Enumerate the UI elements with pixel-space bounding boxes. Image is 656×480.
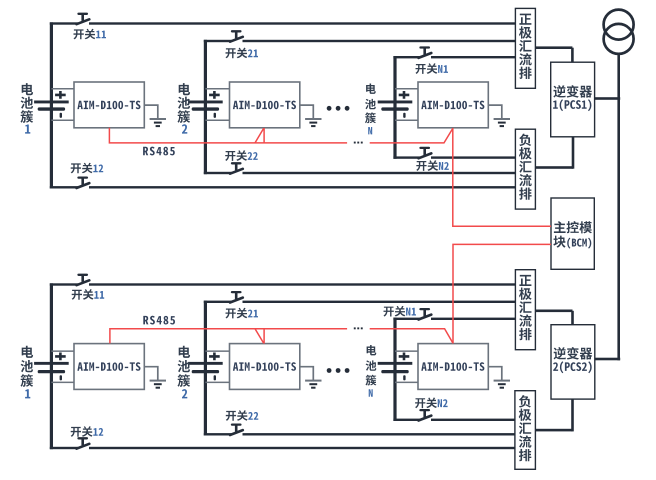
battery clusterN top 电池簇N [378,91,413,118]
wire battery1 to module bottom [51,350,74,383]
bus bar 负极汇流排 bottom [515,391,536,470]
battery cluster2 top 电池簇2 [188,91,223,118]
switch 开关22 bottom [230,424,243,435]
wire battery1 to module top [51,88,74,121]
switch 开关22 top [230,163,243,174]
label 电池簇1 top [21,83,34,134]
module UN top AIM-D100-TS [418,82,488,128]
label 开关N1 top [416,63,449,74]
label RS485 bottom [143,316,175,325]
wire clusterN top battery rail [393,56,396,159]
label 电池簇N bottom [366,345,377,397]
wire cluster1 top negative line segments [50,186,516,188]
wire RS485 bottom to UN [370,329,453,344]
inverter 逆变器1 PCS1 [551,62,595,137]
module U2 bottom AIM-D100-TS [230,344,300,390]
wire RS485 BCM to UN-bottom [453,244,551,343]
module UN bottom AIM-D100-TS [418,344,488,390]
node ellipsis battery row bottom [327,368,350,373]
ground clusterN bottom [488,367,510,389]
wire cluster2 top negative line segments [204,172,516,174]
wire 负极A to PCS1 [535,137,574,169]
wire clusterN bottom negative line segments [393,419,516,421]
wire batteryN to module bottom [395,350,418,383]
wire cluster2 bottom battery rail [204,301,207,436]
module U2 top AIM-D100-TS [230,82,300,128]
label 开关11 bottom [72,289,105,300]
wire RS485 UN-top to BCM [453,128,551,226]
label 电池簇1 bottom [21,346,34,399]
label 电池簇2 top [178,83,191,134]
transformer grid connection [604,10,634,54]
battery cluster1 bottom 电池簇1 [34,353,69,381]
wire cluster1 bottom battery rail [50,283,53,449]
inverter 逆变器2 PCS2 [551,325,595,399]
label 开关N1 bottom [384,306,417,317]
label RS485 top [143,147,175,156]
switch 开关12 bottom [77,438,90,449]
switch 开关12 top [77,177,90,188]
module U1 top AIM-D100-TS [74,82,144,128]
node ellipsis battery row top [327,106,350,111]
ground clusterN top [488,105,510,127]
switch 开关N1 top [419,47,432,58]
ground cluster2 top [300,105,322,127]
wire clusterN bottom battery rail [393,318,396,421]
wire cluster1 bottom negative line segments [50,447,516,449]
label 开关12 bottom [71,426,104,437]
wire cluster2 top battery rail [204,40,207,174]
label 开关21 top [226,48,259,59]
wire 负极B to PCS2 [535,399,574,431]
controller 主控模块 BCM [551,198,594,269]
wire battery2 to module top [205,88,229,121]
wire cluster1 bottom positive line segments [50,283,516,285]
wire RS485 top to UN [370,128,453,143]
ground cluster2 bottom [300,367,322,389]
switch 开关N2 bottom [419,410,432,421]
label 电池簇N top [365,84,376,135]
wire RS485 U1-top drop [109,128,347,143]
bus bar 正极汇流排 bottom [515,270,535,350]
wire cluster2 bottom positive line segments [204,301,516,303]
battery clusterN bottom 电池簇N [378,353,413,381]
switch 开关11 top [77,14,90,25]
switch 开关N1 bottom [419,309,432,320]
wire RS485 U2-top branch [255,128,264,143]
wire RS485 U2-bottom branch [255,329,264,344]
switch 开关21 top [230,31,243,42]
switch 开关N2 top [419,148,432,159]
wire cluster1 top positive line segments [50,22,516,24]
wire cluster2 top positive line segments [204,40,516,42]
wire 正极A to PCS1 [535,46,573,62]
wire 正极B to PCS2 [535,310,574,325]
wire PCS2 output to transformer [595,358,620,361]
bus bar 正极汇流排 top [515,8,535,88]
label 开关N2 bottom [415,398,448,409]
wire cluster1 top battery rail [50,22,53,188]
label 开关22 top [225,150,258,161]
ground cluster1 bottom [144,367,166,389]
label 开关11 top [74,29,107,40]
wire battery2 to module bottom [205,350,229,383]
wire PCS1 output to transformer [595,97,621,100]
bus bar 负极汇流排 top [515,129,535,209]
label 开关N2 top [416,160,449,171]
wire clusterN top positive line segments [393,56,516,58]
label 电池簇2 bottom [178,346,191,399]
switch 开关21 bottom [230,292,243,303]
battery cluster2 bottom 电池簇2 [188,353,223,381]
node RS485 ellipsis top [354,142,363,144]
wire transformer vertical feeder [617,53,620,360]
wire clusterN top negative line segments [393,156,516,158]
switch 开关11 bottom [77,275,90,286]
wire cluster2 bottom negative line segments [204,433,516,435]
label 开关22 bottom [226,410,258,421]
label 开关21 bottom [226,308,259,319]
wire RS485 U1-bottom drop [110,329,347,344]
ground cluster1 top [144,105,166,127]
battery cluster1 top 电池簇1 [34,91,69,118]
wire batteryN to module top [395,88,418,121]
label 开关12 top [71,163,104,174]
module U1 bottom AIM-D100-TS [74,344,144,390]
wire clusterN bottom positive line segments [393,318,516,320]
node RS485 ellipsis bottom [354,327,363,329]
